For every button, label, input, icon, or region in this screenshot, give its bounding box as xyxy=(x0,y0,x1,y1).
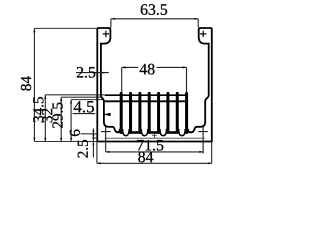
left wall inner line + screw tab xyxy=(97,28,118,132)
fin base line left stub xyxy=(117,131,121,133)
screw centerline cross bottom-left xyxy=(101,127,111,142)
chamber floor edge behind fins xyxy=(104,100,188,102)
fin 4 xyxy=(148,93,151,132)
dimension 2.5 bottom left xyxy=(92,129,94,158)
label 2.5 bottom xyxy=(78,140,88,158)
label 6 xyxy=(70,130,80,136)
enclosure cross-section profile xyxy=(97,28,212,142)
dimension 84 left xyxy=(33,28,35,141)
groove 3-4 xyxy=(141,129,148,136)
label 29.5 xyxy=(52,103,62,128)
fin base line right stub xyxy=(187,131,192,133)
groove 1-2 xyxy=(123,129,130,136)
fin 3 xyxy=(138,93,141,132)
screw hole cross top-left xyxy=(103,31,109,37)
ext 2.5 bottom xyxy=(92,137,97,139)
dimension 63.5 top xyxy=(111,19,198,28)
fin 8 right foot xyxy=(188,129,191,133)
label 71.5 xyxy=(137,140,163,151)
fin 1 left foot xyxy=(117,129,120,133)
fin root fillets xyxy=(117,129,192,136)
heatsink fins xyxy=(121,93,186,132)
label 34.5 xyxy=(33,97,43,122)
dimension 2.5 left wall xyxy=(76,72,109,74)
label 63.5 xyxy=(141,4,167,15)
label 84 bottom xyxy=(138,152,153,163)
dimension 32 xyxy=(60,97,62,141)
label 2.5 wall xyxy=(77,67,95,78)
fin window top edge xyxy=(105,94,188,96)
ext 29.5 xyxy=(71,99,103,101)
fin 8 xyxy=(185,93,188,132)
ext 6 xyxy=(81,133,98,135)
screw hole cross top-right xyxy=(200,31,206,37)
fin 6 xyxy=(166,93,169,132)
fin 7 xyxy=(176,93,179,132)
ext 34.5 xyxy=(45,94,104,96)
fin 2 xyxy=(129,93,132,132)
bottom base ext xyxy=(34,141,97,143)
groove 7-8 xyxy=(179,129,186,136)
dimension 71.5 bottom xyxy=(106,142,203,152)
ext 84 top xyxy=(34,27,98,29)
centerline mark xyxy=(152,133,157,138)
web 2-3 xyxy=(132,131,139,134)
label 32 xyxy=(42,109,52,123)
dimension 48 xyxy=(122,67,187,93)
label 4.5 xyxy=(74,101,94,112)
web 6-7 xyxy=(169,131,176,134)
label 48 xyxy=(140,64,155,75)
right wall inner line + screw tab xyxy=(191,28,212,132)
dimension 29.5 xyxy=(70,100,72,142)
dimension 84 bottom xyxy=(97,142,212,164)
fin 5 xyxy=(157,93,160,132)
label 84 left xyxy=(21,76,31,90)
dimension 34.5 xyxy=(44,95,46,142)
fin 1 xyxy=(120,93,123,132)
left dimension stack extension lines xyxy=(34,28,104,141)
groove 5-6 xyxy=(160,129,167,136)
outer body outline (open top between tabs) xyxy=(97,28,212,142)
bottom plate top edge xyxy=(105,137,205,139)
screw centerline cross bottom-right xyxy=(198,127,208,154)
ext 32 xyxy=(61,96,100,98)
web 4-5 xyxy=(150,131,157,134)
